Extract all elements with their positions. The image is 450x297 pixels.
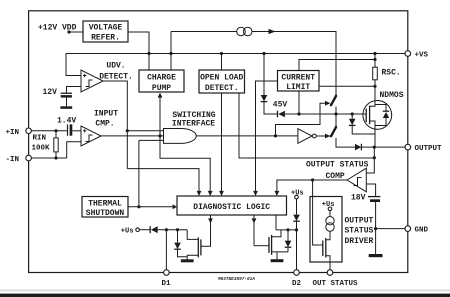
svg-text:CHARGE: CHARGE xyxy=(147,74,176,83)
svg-text:COMP: COMP xyxy=(326,172,345,181)
svg-text:+Us: +Us xyxy=(121,228,134,236)
svg-text:LIMIT: LIMIT xyxy=(286,83,310,92)
svg-text:INTERFACE: INTERFACE xyxy=(172,120,215,129)
svg-text:M93TDE3897-01A: M93TDE3897-01A xyxy=(217,277,255,282)
svg-text:+12V VDD: +12V VDD xyxy=(38,24,77,33)
svg-text:CMP.: CMP. xyxy=(95,119,114,128)
svg-text:VOLTAGE: VOLTAGE xyxy=(89,24,123,33)
svg-text:12V: 12V xyxy=(43,88,58,97)
svg-text:UDV.: UDV. xyxy=(106,62,125,71)
svg-text:100K: 100K xyxy=(32,145,51,153)
svg-text:18V: 18V xyxy=(351,194,366,203)
svg-text:CURRENT: CURRENT xyxy=(281,74,315,83)
svg-text:RIN: RIN xyxy=(33,135,47,143)
svg-text:GND: GND xyxy=(415,227,429,235)
svg-text:-IN: -IN xyxy=(6,156,20,164)
svg-text:DETECT.: DETECT. xyxy=(99,73,133,82)
svg-text:D1: D1 xyxy=(162,280,172,288)
svg-text:DETECT.: DETECT. xyxy=(205,84,239,93)
svg-text:DIAGNOSTIC LOGIC: DIAGNOSTIC LOGIC xyxy=(193,203,270,212)
svg-text:PUMP: PUMP xyxy=(152,84,171,93)
svg-text:STATUS: STATUS xyxy=(345,226,374,235)
svg-text:+Us: +Us xyxy=(291,190,304,198)
svg-text:THERMAL: THERMAL xyxy=(88,199,122,208)
svg-text:45V: 45V xyxy=(273,101,288,110)
svg-text:+VS: +VS xyxy=(415,51,429,59)
svg-text:+Us: +Us xyxy=(322,201,335,209)
svg-text:SHUTDOWN: SHUTDOWN xyxy=(86,209,125,218)
svg-text:OPEN LOAD: OPEN LOAD xyxy=(200,74,243,83)
svg-text:NDMOS: NDMOS xyxy=(380,91,404,100)
svg-text:OUTPUT STATUS: OUTPUT STATUS xyxy=(306,161,369,170)
svg-text:1.4V: 1.4V xyxy=(57,117,76,126)
svg-text:OUTPUT: OUTPUT xyxy=(415,145,443,153)
svg-text:OUTPUT: OUTPUT xyxy=(345,217,374,226)
svg-text:INPUT: INPUT xyxy=(94,110,118,119)
svg-text:REFER.: REFER. xyxy=(91,34,120,43)
svg-text:D2: D2 xyxy=(292,280,302,288)
svg-text:DRIVER: DRIVER xyxy=(345,237,374,246)
svg-text:RSC.: RSC. xyxy=(382,69,401,78)
svg-text:OUT STATUS: OUT STATUS xyxy=(313,280,359,288)
svg-text:+IN: +IN xyxy=(6,129,20,137)
